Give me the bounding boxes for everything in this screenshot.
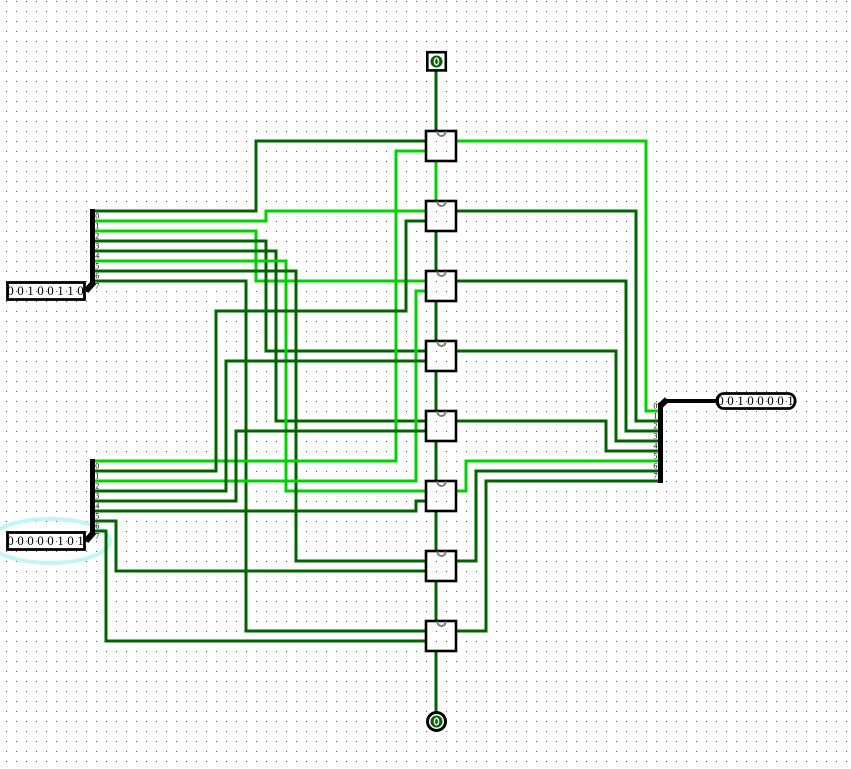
selection halo around pin B: [0, 519, 110, 563]
wire sum4 (U5 to output splitter line4): [455, 421, 658, 451]
wire A bit5 (splitter A line5 to U6 port A): [94, 261, 427, 491]
wire B bit4 (splitter B line4 to U5 port B): [94, 431, 427, 501]
wire carry U2 to U3: [435, 230, 438, 272]
svg-text:4: 4: [95, 502, 99, 511]
wire A bit2 (splitter A line2 to U3 port A): [94, 231, 427, 281]
output pin P2 (1-bit carry-out, value 0): [428, 713, 446, 731]
wire carry-in from pin P1 to U1: [435, 71, 438, 132]
svg-text:7: 7: [653, 472, 657, 481]
svg-text:2: 2: [653, 422, 657, 431]
input pin A (8-bit, value 00100110): [7, 283, 84, 300]
wire carry U6 to U7: [435, 510, 438, 552]
wire sum5 (U6 to output splitter line5): [455, 461, 658, 491]
subcircuit U4 (full adder bit 3): [426, 341, 456, 371]
splitter SO spine: [658, 403, 663, 483]
splitter SO bit labels: [653, 402, 657, 481]
svg-text:1: 1: [95, 472, 99, 481]
subcircuit U2 (full adder bit 1): [426, 201, 456, 231]
splitter SA diagonal: [86, 282, 94, 291]
subcircuit U1 (full adder bit 0): [426, 131, 456, 161]
wire sum7 (U8 to output splitter line7): [455, 481, 658, 631]
wire B bit2 (splitter B line2 to U3 port B): [94, 291, 427, 481]
wire carry U3 to U4: [435, 300, 438, 342]
subcircuit U6 (full adder bit 5): [426, 481, 456, 511]
wire A bit4 (splitter A line4 to U5 port A): [94, 251, 427, 421]
wire sum3 (U4 to output splitter line3): [455, 351, 658, 441]
svg-text:0: 0: [95, 212, 99, 221]
subcircuit U8 (full adder bit 7): [426, 621, 456, 651]
svg-text:0: 0: [653, 402, 657, 411]
subcircuit U3 (full adder bit 2): [426, 271, 456, 301]
svg-text:5: 5: [95, 262, 99, 271]
wire B bit1 (splitter B line1 to U2 port B): [94, 221, 427, 471]
svg-text:7: 7: [95, 532, 99, 541]
wire sum2 (U3 to output splitter line2): [455, 281, 658, 431]
svg-text:6: 6: [95, 272, 99, 281]
svg-text:3: 3: [95, 492, 99, 501]
splitter SB diagonal: [86, 532, 94, 541]
svg-text:3: 3: [653, 432, 657, 441]
subcircuit U7 (full adder bit 6): [426, 551, 456, 581]
output pin OUT (8-bit, value 00100001): [717, 393, 795, 409]
svg-text:4: 4: [653, 442, 657, 451]
wire sum0 (U1 to output splitter line0): [455, 141, 658, 411]
svg-text:2: 2: [95, 232, 99, 241]
svg-text:3: 3: [95, 242, 99, 251]
subcircuit U5 (full adder bit 4): [426, 411, 456, 441]
svg-text:5: 5: [653, 452, 657, 461]
wire sum6 (U7 to output splitter line6): [455, 471, 658, 561]
input pin P1 (1-bit carry-in, value 0): [427, 52, 446, 70]
wire A bit0 (splitter A line0 to U1 port A): [94, 141, 427, 211]
svg-text:5: 5: [95, 512, 99, 521]
wire A bit1 (splitter A line1 to U2 port A): [94, 211, 427, 221]
wire carry U5 to U6: [435, 440, 438, 482]
splitter SA spine: [90, 209, 95, 285]
wire B bit0 (splitter B line0 to U1 port B): [94, 151, 427, 461]
splitter SB bit labels: [95, 462, 99, 541]
svg-text:0: 0: [95, 462, 99, 471]
input pin B (8-bit, value 00000101): [7, 533, 84, 550]
wire A bit7 (splitter A line7 to U8 port A): [94, 281, 427, 631]
wire B bit5 (splitter B line5 to U6 port B): [94, 501, 427, 511]
svg-text:1: 1: [653, 412, 657, 421]
svg-text:7: 7: [95, 282, 99, 291]
wire A bit6 (splitter A line6 to U7 port A): [94, 271, 427, 561]
wire B bit7 (splitter B line7 to U8 port B): [94, 531, 427, 641]
wire carry-out U8 to pin P2: [435, 650, 438, 712]
svg-text:6: 6: [95, 522, 99, 531]
splitter SO diagonal: [660, 400, 668, 407]
wire A bit3 (splitter A line3 to U4 port A): [94, 241, 427, 351]
svg-text:4: 4: [95, 252, 99, 261]
svg-text:6: 6: [653, 462, 657, 471]
wire sum1 (U2 to output splitter line1): [455, 211, 658, 421]
svg-text:2: 2: [95, 482, 99, 491]
splitter SB spine: [90, 459, 95, 535]
wire carry U4 to U5: [435, 370, 438, 412]
wire carry U7 to U8: [435, 580, 438, 622]
bus wire output splitter to pin OUT: [664, 399, 716, 403]
svg-text:1: 1: [95, 222, 99, 231]
wire carry U1 to U2: [435, 160, 438, 202]
wire B bit6 (splitter B line6 to U7 port B): [94, 521, 427, 571]
wire B bit3 (splitter B line3 to U4 port B): [94, 361, 427, 491]
splitter SA bit labels: [95, 212, 99, 291]
